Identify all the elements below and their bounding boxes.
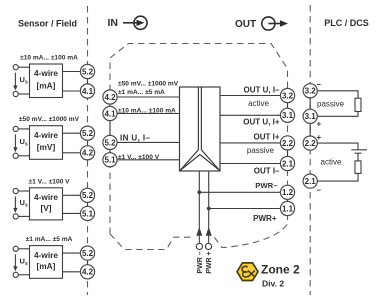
svg-text:4.1: 4.1	[82, 87, 94, 96]
svg-text:Div. 2: Div. 2	[262, 279, 284, 289]
svg-text:5.2: 5.2	[82, 191, 94, 200]
svg-text:OUT I–: OUT I–	[254, 166, 280, 175]
svg-text:3.1: 3.1	[282, 111, 294, 120]
svg-text:–: –	[317, 186, 322, 195]
svg-text:[V]: [V]	[40, 203, 51, 213]
svg-text:1.2: 1.2	[282, 188, 294, 197]
svg-text:2.1: 2.1	[305, 177, 317, 186]
svg-text:2.2: 2.2	[305, 139, 317, 148]
svg-text:2.1: 2.1	[282, 159, 294, 168]
svg-text:s: s	[25, 141, 28, 147]
svg-text:PWR –: PWR –	[197, 251, 204, 273]
svg-text:OUT U, I–: OUT U, I–	[243, 86, 280, 95]
svg-text:PWR+: PWR+	[253, 214, 277, 223]
svg-text:4.1: 4.1	[104, 109, 116, 118]
svg-text:PWR +: PWR +	[206, 251, 213, 273]
svg-text:active: active	[321, 158, 342, 167]
svg-text:s: s	[25, 203, 28, 209]
svg-text:5.2: 5.2	[104, 138, 116, 147]
svg-text:4.2: 4.2	[82, 268, 94, 277]
svg-text:Sensor / Field: Sensor / Field	[18, 19, 77, 29]
svg-text:3.2: 3.2	[282, 91, 294, 100]
svg-text:s: s	[25, 80, 28, 86]
svg-text:OUT I+: OUT I+	[253, 133, 279, 142]
svg-text:–: –	[317, 80, 322, 89]
svg-text:+: +	[317, 133, 322, 142]
svg-text:PLC / DCS: PLC / DCS	[324, 18, 369, 28]
svg-text:OUT U, I+: OUT U, I+	[243, 118, 280, 127]
svg-text:[mV]: [mV]	[37, 142, 56, 152]
svg-text:IN: IN	[108, 17, 119, 29]
svg-text:s: s	[25, 261, 28, 267]
svg-text:4.2: 4.2	[104, 93, 116, 102]
svg-text:+: +	[317, 120, 322, 129]
svg-text:OUT: OUT	[235, 19, 256, 30]
svg-text:5.1: 5.1	[82, 209, 94, 218]
svg-text:±1 mA... ±5 mA: ±1 mA... ±5 mA	[26, 236, 73, 243]
svg-text:5.2: 5.2	[82, 67, 94, 76]
svg-text:±50 mV... ±1000 mV: ±50 mV... ±1000 mV	[118, 81, 179, 88]
svg-text:[mA]: [mA]	[37, 261, 56, 271]
svg-text:PWR–: PWR–	[255, 181, 278, 190]
svg-text:1.1: 1.1	[282, 204, 294, 213]
svg-text:Zone 2: Zone 2	[261, 263, 300, 277]
svg-text:±1 V... ±100 V: ±1 V... ±100 V	[28, 178, 70, 185]
svg-text:±1 V... ±100 V: ±1 V... ±100 V	[118, 154, 160, 161]
svg-text:[mA]: [mA]	[37, 80, 56, 90]
svg-text:3.2: 3.2	[305, 87, 317, 96]
svg-text:4-wire: 4-wire	[34, 130, 58, 140]
svg-text:5.1: 5.1	[104, 156, 116, 165]
svg-text:5.2: 5.2	[82, 129, 94, 138]
svg-text:passive: passive	[317, 100, 345, 109]
svg-text:±50 mV... ±1000 mV: ±50 mV... ±1000 mV	[19, 116, 80, 123]
svg-text:4.2: 4.2	[82, 149, 94, 158]
svg-text:4-wire: 4-wire	[34, 192, 58, 202]
svg-text:IN U, I–: IN U, I–	[120, 133, 150, 142]
svg-text:2.2: 2.2	[282, 139, 294, 148]
svg-text:active: active	[248, 99, 269, 108]
svg-text:±10 mA... ±100 mA: ±10 mA... ±100 mA	[20, 55, 78, 62]
svg-text:±10 mA... ±100 mA: ±10 mA... ±100 mA	[118, 108, 176, 115]
svg-text:±1 mA... ±5 mA: ±1 mA... ±5 mA	[118, 89, 165, 96]
svg-text:5.2: 5.2	[82, 249, 94, 258]
svg-text:passive: passive	[247, 146, 275, 155]
svg-text:4-wire: 4-wire	[34, 68, 58, 78]
svg-text:3.1: 3.1	[305, 112, 317, 121]
svg-text:4-wire: 4-wire	[34, 250, 58, 260]
